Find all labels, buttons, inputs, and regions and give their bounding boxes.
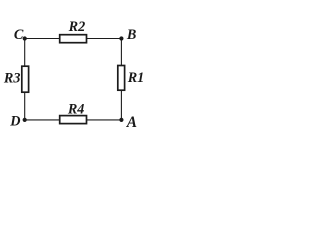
svg-text:B: B (126, 27, 136, 43)
resistor R1 (118, 66, 125, 91)
svg-text:R3: R3 (3, 71, 21, 87)
svg-text:C: C (14, 27, 24, 43)
node A (119, 118, 123, 122)
resistor R3 (22, 66, 29, 92)
node B (119, 36, 123, 40)
wire B-A (right) (120, 39, 122, 120)
wire D-A (bottom) (25, 119, 122, 121)
resistor R2 (60, 35, 87, 43)
wire C-B (top) (25, 38, 122, 40)
svg-text:A: A (126, 114, 137, 131)
svg-text:R2: R2 (68, 19, 86, 35)
svg-text:R4: R4 (67, 102, 85, 118)
wire C-D (left) (24, 39, 26, 120)
node C (23, 36, 27, 40)
svg-text:R1: R1 (127, 70, 145, 86)
resistor R4 (60, 116, 87, 124)
svg-text:D: D (9, 114, 20, 130)
node D (23, 118, 27, 122)
